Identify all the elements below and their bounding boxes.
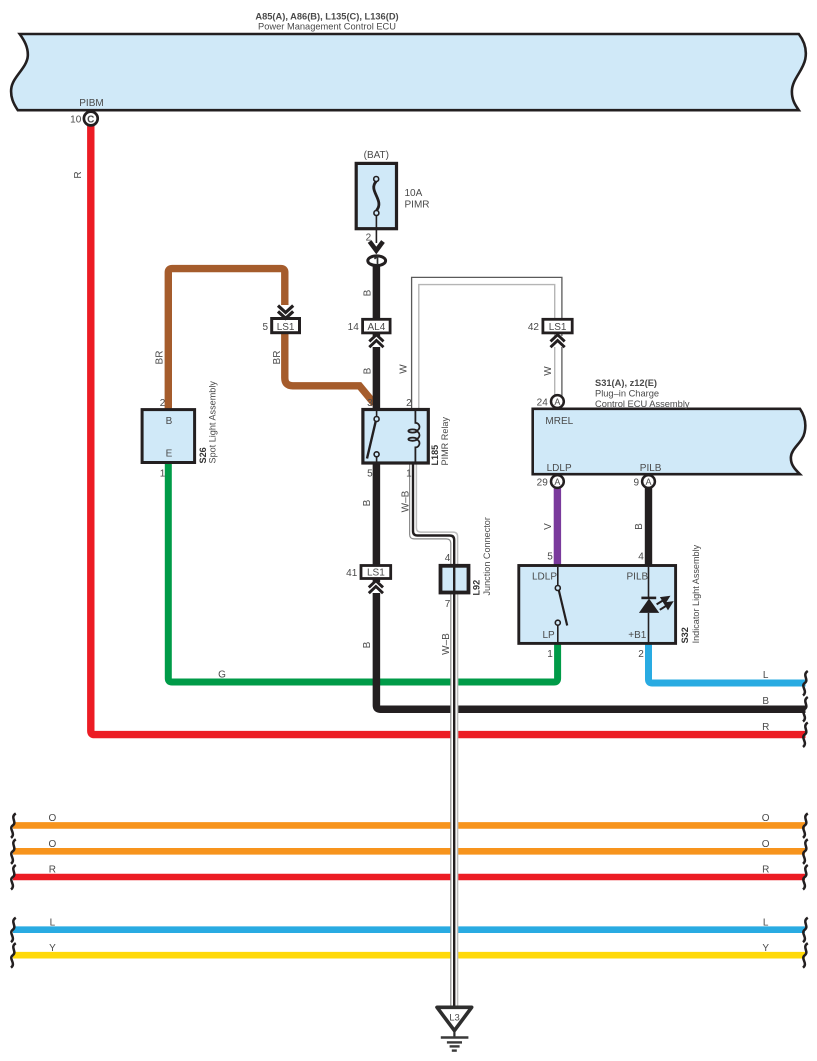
svg-text:10: 10 <box>70 114 82 125</box>
svg-text:W–B: W–B <box>401 490 412 512</box>
right break squiggle B wire <box>803 697 808 722</box>
ground L3 <box>437 1007 472 1050</box>
svg-text:Plug–in Charge: Plug–in Charge <box>595 389 659 399</box>
svg-text:A: A <box>645 477 651 487</box>
svg-text:S26: S26 <box>198 447 208 463</box>
svg-text:L: L <box>763 670 769 681</box>
wire purple V from S31 pin29 to S32 pin 5 <box>554 487 561 566</box>
pin 29 A circle on S31 <box>551 475 564 488</box>
svg-text:2: 2 <box>160 398 166 409</box>
wire blue L from S32 pin 2 to right break <box>649 643 806 683</box>
S32 Indicator Light Assembly box <box>519 566 676 644</box>
svg-text:R: R <box>49 865 56 876</box>
svg-text:29: 29 <box>537 477 549 488</box>
svg-text:1: 1 <box>547 649 553 660</box>
junction connector L92 box <box>441 566 469 593</box>
svg-text:+B1: +B1 <box>628 630 647 641</box>
svg-text:S32: S32 <box>680 627 690 643</box>
svg-text:W–B: W–B <box>441 633 452 655</box>
wire brown BR from S26 pin2 via LS1 to relay pin 3 <box>168 269 374 411</box>
svg-text:LS1: LS1 <box>277 322 295 333</box>
svg-text:AL4: AL4 <box>368 322 386 333</box>
svg-text:4: 4 <box>638 552 644 563</box>
svg-text:Junction Connector: Junction Connector <box>482 517 492 595</box>
svg-text:C: C <box>87 114 94 125</box>
wire white-black W-B relay pin1 to ground L3 <box>410 463 458 1006</box>
wire white W loop relay pin2 to 42 LS1 to S31 pin 24 <box>412 277 562 410</box>
svg-text:A: A <box>554 397 560 407</box>
svg-text:S31(A), z12(E): S31(A), z12(E) <box>595 378 657 388</box>
svg-text:9: 9 <box>633 477 639 488</box>
arrow below fuse pin 2 <box>370 242 383 251</box>
S32 switch <box>555 567 567 642</box>
pin 24 A circle on S31 <box>551 395 564 408</box>
svg-text:R: R <box>762 865 769 876</box>
svg-text:L3: L3 <box>449 1013 460 1024</box>
svg-text:2: 2 <box>366 233 372 244</box>
svg-text:R: R <box>73 171 84 178</box>
pin 10 C circle on ECU banner <box>84 112 98 126</box>
harness wire O 1 <box>13 822 805 829</box>
svg-text:W: W <box>543 366 554 376</box>
right break squiggle R wire <box>803 723 808 748</box>
svg-text:L: L <box>763 917 769 928</box>
connector LS1 pin 41 (black) <box>361 566 391 594</box>
svg-text:1: 1 <box>160 469 166 480</box>
wire green G from S26 pin1 to S32 pin 1 <box>168 460 557 682</box>
svg-text:L: L <box>50 917 56 928</box>
svg-text:LP: LP <box>543 630 556 641</box>
svg-text:42: 42 <box>528 322 540 333</box>
svg-text:LDLP: LDLP <box>547 463 572 474</box>
svg-text:B: B <box>362 641 373 648</box>
wire red R from PIBM pin 10 to right break <box>91 125 806 735</box>
wire black B main from node 1 down and right to break <box>376 263 805 709</box>
svg-text:Y: Y <box>762 943 769 954</box>
harness wire R <box>13 874 805 881</box>
svg-text:10A: 10A <box>405 188 423 199</box>
svg-text:41: 41 <box>346 568 358 579</box>
relay coil <box>408 411 419 462</box>
svg-text:5: 5 <box>547 552 553 563</box>
svg-text:B: B <box>362 289 373 296</box>
connector LS1 pin 42 (white) <box>543 319 572 347</box>
ECU banner: Power Management Control ECU <box>11 34 806 110</box>
svg-text:(BAT): (BAT) <box>364 150 389 161</box>
svg-text:1: 1 <box>406 469 412 480</box>
splice node 1 ellipse <box>368 256 386 266</box>
svg-text:BR: BR <box>272 351 283 365</box>
svg-text:Indicator Light Assembly: Indicator Light Assembly <box>691 544 701 643</box>
svg-text:E: E <box>166 449 173 460</box>
breaks for harness wires <box>11 813 808 967</box>
svg-text:LS1: LS1 <box>549 322 567 333</box>
svg-text:4: 4 <box>445 553 451 564</box>
connector LS1 pin 5 (brown) <box>272 305 300 333</box>
svg-text:B: B <box>166 416 173 427</box>
svg-text:R: R <box>762 722 769 733</box>
svg-text:Power Management Control ECU: Power Management Control ECU <box>258 22 396 32</box>
svg-text:PILB: PILB <box>627 572 649 583</box>
svg-text:O: O <box>49 813 57 824</box>
svg-text:O: O <box>762 813 770 824</box>
svg-text:LDLP: LDLP <box>532 572 557 583</box>
svg-text:L92: L92 <box>472 580 482 596</box>
svg-text:2: 2 <box>406 398 412 409</box>
svg-text:O: O <box>49 839 57 850</box>
connector AL4 pin 14 <box>363 319 391 347</box>
svg-text:L185: L185 <box>430 445 440 466</box>
fuse PIMR 10A box <box>356 163 396 228</box>
right break squiggle L wire <box>803 671 808 696</box>
S32 LED indicator lamp <box>640 567 672 642</box>
svg-text:G: G <box>218 670 226 681</box>
svg-text:A85(A), A86(B), L135(C), L136(: A85(A), A86(B), L135(C), L136(D) <box>255 11 398 21</box>
wire black B from S31 pin9 to S32 pin 4 <box>645 487 652 566</box>
S26 Spot Light Assembly box <box>142 410 195 463</box>
svg-text:Y: Y <box>49 943 56 954</box>
svg-text:BR: BR <box>155 351 166 365</box>
L92 through wire stripe <box>453 564 455 595</box>
fuse element symbol <box>374 177 379 244</box>
svg-text:LS1: LS1 <box>367 568 385 579</box>
svg-text:7: 7 <box>445 599 451 610</box>
svg-text:B: B <box>362 367 373 374</box>
ECU S31 Plug-in Charge Control ECU Assembly box <box>533 409 806 474</box>
svg-text:B: B <box>362 499 373 506</box>
harness wire L <box>13 926 805 933</box>
svg-text:B: B <box>634 523 645 530</box>
svg-text:Spot Light Assembly: Spot Light Assembly <box>208 381 218 464</box>
svg-text:2: 2 <box>638 649 644 660</box>
pin 9 A circle on S31 <box>642 475 655 488</box>
svg-text:5: 5 <box>262 322 268 333</box>
svg-text:MREL: MREL <box>545 416 573 427</box>
svg-text:PIMR: PIMR <box>405 199 430 210</box>
svg-text:PIMR Relay: PIMR Relay <box>440 417 450 466</box>
svg-text:O: O <box>762 839 770 850</box>
svg-text:Control ECU Assembly: Control ECU Assembly <box>595 399 690 409</box>
svg-text:A: A <box>554 477 560 487</box>
svg-text:W: W <box>399 364 410 374</box>
svg-text:B: B <box>762 696 769 707</box>
relay L185 PIMR Relay box <box>363 410 428 464</box>
svg-text:PIBM: PIBM <box>79 98 103 109</box>
harness wire Y <box>13 952 805 959</box>
svg-text:24: 24 <box>537 397 549 408</box>
svg-text:V: V <box>543 523 554 530</box>
harness wire O 2 <box>13 848 805 855</box>
svg-text:14: 14 <box>348 322 360 333</box>
svg-text:3: 3 <box>367 398 373 409</box>
relay switch contact <box>367 411 379 462</box>
svg-text:PILB: PILB <box>640 463 662 474</box>
svg-text:5: 5 <box>367 469 373 480</box>
